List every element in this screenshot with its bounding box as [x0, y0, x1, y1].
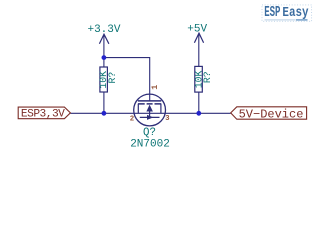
pin 1 (gate) number: [150, 85, 160, 90]
svg-text:ESP: ESP: [264, 4, 280, 21]
reference Q?: [143, 127, 156, 139]
transistor Q? 2N7002: [134, 94, 166, 126]
wire: left resistor bottom to main net: [103, 92, 105, 113]
wire: gate branch from +3.3V junction to Q1 gate: [104, 58, 150, 101]
svg-text:5V−Device: 5V−Device: [239, 108, 304, 122]
svg-text:2: 2: [130, 115, 134, 123]
global label ESP3,3V: [18, 107, 70, 120]
wire: right resistor bottom to main net: [198, 92, 200, 113]
resistor R? 10K (left): [98, 67, 118, 92]
pin 3 (drain) number: [165, 115, 170, 123]
svg-text:ESP3,3V: ESP3,3V: [21, 108, 65, 120]
junction: right resistor / 5V-Device net: [196, 111, 201, 116]
svg-text:1: 1: [150, 85, 160, 90]
wire: +3.3V stem down to junction: [103, 35, 105, 58]
value 2N7002: [130, 138, 170, 150]
svg-text:Q?: Q?: [143, 127, 156, 139]
pin 2 (source) number: [130, 115, 134, 123]
wire: +5V stem down to right resistor top: [198, 34, 200, 66]
svg-text:2N7002: 2N7002: [130, 138, 170, 150]
wire: main horizontal net ESP3,3V to 5V-Device: [70, 112, 230, 114]
resistor R? 10K (right): [193, 66, 213, 92]
wire: junction to left resistor top: [103, 58, 105, 67]
ESP Easy logo: [262, 4, 312, 21]
svg-text:R?: R?: [107, 72, 118, 84]
svg-text:Easy: Easy: [282, 5, 309, 21]
power symbol +5V: [187, 24, 207, 43]
svg-text:R?: R?: [202, 71, 213, 83]
svg-text:+5V: +5V: [187, 24, 207, 36]
junction: +3.3V node: [102, 55, 107, 60]
global label 5V-Device: [231, 107, 307, 122]
junction: left resistor / ESP3,3V net: [102, 111, 107, 116]
power symbol +3.3V: [87, 24, 120, 44]
svg-text:3: 3: [165, 115, 170, 123]
